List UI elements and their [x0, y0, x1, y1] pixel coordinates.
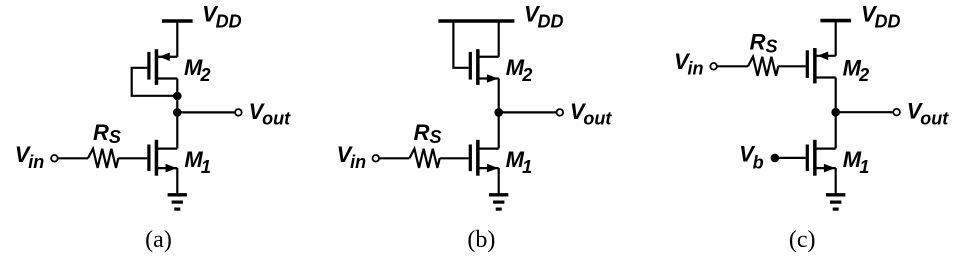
terminal Vb (filled dot) (c) — [771, 154, 780, 163]
terminal Vout (b) — [557, 109, 564, 116]
wire: M1 (b) source to ground — [498, 168, 500, 193]
node: Vout junction (a) — [173, 108, 182, 117]
wire: Vin to RS (c) — [717, 65, 748, 67]
transistor M2 (b) — [469, 49, 499, 85]
wire: node to Vout terminal (c) — [836, 111, 894, 113]
transistor M1 (a) — [147, 140, 177, 176]
resistor RS (b) — [409, 149, 439, 168]
node: Vout junction (c) — [831, 108, 840, 117]
svg-text:(a): (a) — [145, 227, 172, 253]
wire: Vin to RS (a) — [58, 157, 88, 159]
wire: M2 diode connection loop gate-to-drain (a) — [132, 68, 178, 96]
wire: VDD rail to M2 source (a) — [176, 21, 178, 57]
ground symbol (M1 (b)) — [489, 195, 508, 209]
wire: M2 drain up to VDD rail (b) — [498, 21, 500, 57]
VDD power rail (c) — [820, 19, 851, 23]
terminal Vout (c) — [893, 109, 900, 116]
wire: Vb to M1 gate (c) — [775, 157, 806, 159]
ground symbol (M1 (c)) — [826, 195, 845, 209]
transistor M1 (b) — [469, 140, 499, 176]
terminal Vin (a) — [51, 155, 58, 162]
wire: RS to M1 gate (b) — [440, 157, 469, 159]
transistor M2 (a) — [147, 49, 177, 85]
terminal Vin (c) — [710, 63, 717, 70]
wire: M2 drain down through nodes to M1 drain (a) — [176, 79, 178, 149]
resistor RS (c) — [748, 57, 778, 76]
wire: RS to M1 gate (a) — [118, 157, 147, 159]
wire: M1 (c) source to ground — [835, 168, 837, 193]
transistor M2 (c) — [806, 48, 836, 83]
svg-text:(c): (c) — [789, 227, 816, 253]
terminal Vout (a) — [235, 109, 242, 116]
wire: VDD rail to M2 drain (c) — [835, 21, 837, 56]
VDD power rail (b) — [438, 19, 514, 23]
wire: M1 (a) source to ground — [176, 168, 178, 193]
svg-text:(b): (b) — [467, 227, 495, 253]
wire: M2 source down to M1 drain (c) — [835, 78, 837, 149]
transistor M1 (c) — [806, 140, 836, 176]
node: gate/drain junction of M2 (a) — [173, 92, 182, 101]
node: Vout junction (b) — [494, 108, 503, 117]
resistor RS (a) — [88, 149, 118, 168]
wire: M2 gate up to VDD rail (b) — [453, 21, 468, 68]
wire: node to Vout terminal (b) — [499, 111, 557, 113]
wire: Vin to RS (b) — [379, 157, 409, 159]
wire: RS to M2 gate (c) — [778, 65, 805, 67]
ground symbol (M1 (a)) — [168, 195, 187, 209]
VDD power rail (a) — [162, 19, 193, 23]
wire: M2 source down to M1 drain (b) — [498, 79, 500, 149]
wire: node to Vout terminal (a) — [177, 111, 235, 113]
terminal Vin (b) — [373, 155, 380, 162]
